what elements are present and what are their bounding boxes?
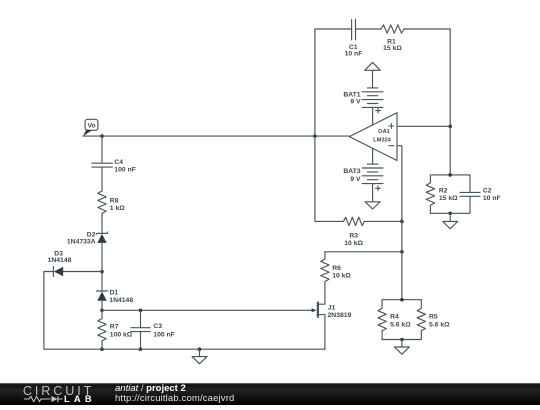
wire D2 to D3 junction — [101, 243, 103, 291]
svg-text:5.6 kΩ: 5.6 kΩ — [390, 322, 411, 329]
capacitor C4 — [92, 163, 112, 186]
label C4 value — [114, 159, 136, 174]
svg-text:C4: C4 — [114, 159, 123, 166]
junction R3 right — [400, 220, 404, 224]
svg-text:15 kΩ: 15 kΩ — [439, 195, 458, 202]
wire R3 to inverting node — [364, 220, 402, 222]
footer title text — [115, 384, 234, 403]
diode D3 — [53, 267, 63, 277]
svg-text:10 nF: 10 nF — [483, 195, 501, 202]
svg-text:R7: R7 — [110, 324, 119, 331]
svg-text:R3: R3 — [349, 233, 358, 240]
wire R2C2 top rail — [430, 174, 470, 176]
junction D3 node — [100, 270, 104, 274]
wire gate node to C3 — [102, 309, 141, 311]
junction R2C2 top — [448, 173, 452, 177]
capacitor C1 — [352, 20, 356, 40]
svg-text:1N4733A: 1N4733A — [67, 238, 96, 245]
junction R7 bottom — [100, 347, 104, 351]
power arrow V+ — [365, 62, 381, 88]
svg-text:Vo: Vo — [88, 122, 96, 129]
svg-text:10 kΩ: 10 kΩ — [344, 240, 363, 247]
svg-text:100 kΩ: 100 kΩ — [110, 331, 133, 338]
svg-text:OA1: OA1 — [378, 129, 390, 135]
wire J1 gate — [140, 309, 308, 311]
wire D3 to left rail — [44, 272, 54, 350]
label R1 value — [383, 39, 402, 52]
svg-text:BAT3: BAT3 — [343, 168, 360, 175]
resistor R4 — [378, 300, 386, 340]
svg-text:9 V: 9 V — [350, 176, 361, 183]
junction R4R5 top — [400, 298, 404, 302]
label R4 value — [390, 314, 411, 329]
label R2 value — [439, 187, 458, 202]
svg-text:100 nF: 100 nF — [114, 166, 136, 173]
wire D1 to gate node — [101, 301, 103, 311]
junction R4R5 bottom — [400, 338, 404, 342]
wire R4R5 bottom rail — [382, 339, 421, 341]
ground R2C2 — [443, 213, 458, 228]
diode D1 — [96, 291, 107, 301]
label BAT1 value — [343, 92, 361, 106]
svg-text:1N4148: 1N4148 — [48, 257, 72, 264]
svg-text:R2: R2 — [439, 187, 448, 194]
junction R6 branch — [400, 250, 404, 254]
wire output rail Vo node — [83, 135, 349, 137]
wire Vo to C4 — [101, 136, 103, 163]
resistor R3 — [344, 217, 365, 225]
battery BAT1 — [362, 88, 383, 125]
ground R4R5 — [394, 340, 409, 355]
node flag Vo — [83, 119, 98, 136]
svg-text:100 nF: 100 nF — [153, 331, 175, 338]
label R3 value — [344, 233, 363, 247]
svg-text:2N3819: 2N3819 — [328, 312, 352, 319]
svg-text:R5: R5 — [429, 314, 438, 321]
label D1 value — [109, 290, 133, 304]
svg-text:1 kΩ: 1 kΩ — [110, 205, 125, 212]
label J1 value — [328, 304, 352, 319]
wire R6 branch horizontal — [325, 251, 402, 253]
junction C3 bottom — [139, 347, 143, 351]
transistor J1 2N3819 — [309, 303, 325, 317]
label R7 value — [110, 324, 133, 339]
svg-text:10 kΩ: 10 kΩ — [332, 273, 351, 280]
resistor R6 — [321, 252, 329, 289]
wire R2C2 bottom rail — [430, 212, 470, 214]
wire op-amp - input — [397, 146, 402, 222]
svg-text:R6: R6 — [332, 265, 341, 272]
diode D2 zener — [96, 232, 107, 243]
label D2 value — [67, 232, 96, 246]
wire R3 left branch — [315, 136, 344, 221]
svg-text:D1: D1 — [110, 290, 119, 297]
label D3 value — [48, 250, 72, 264]
svg-text:15 kΩ: 15 kΩ — [383, 45, 402, 52]
junction R2C2 bottom — [448, 212, 452, 216]
label R5 value — [429, 314, 450, 329]
label BAT3 value — [343, 168, 361, 183]
wire inverting node down — [401, 221, 403, 251]
label C2 value — [483, 187, 501, 202]
label R8 value — [110, 198, 125, 212]
svg-text:J1: J1 — [328, 304, 336, 311]
capacitor C3 — [140, 310, 142, 327]
svg-text:9 V: 9 V — [350, 99, 361, 106]
wire bottom rail — [44, 348, 325, 350]
svg-text:R8: R8 — [110, 198, 119, 205]
resistor R8 — [98, 186, 106, 218]
label R6 value — [332, 265, 351, 280]
resistor R1 — [381, 25, 404, 33]
wire R6 to J1 drain — [318, 289, 325, 304]
footer bar — [0, 383, 540, 405]
op-amp OA1 LM324 — [349, 113, 397, 161]
junction Vo feedback — [313, 134, 317, 138]
wire R8 to D2 — [101, 218, 103, 233]
resistor R2 — [426, 175, 434, 213]
ground BAT3 — [365, 202, 380, 209]
wire down to R4 R5 — [401, 252, 403, 300]
svg-text:10 nF: 10 nF — [345, 50, 363, 57]
label C1 value — [345, 44, 363, 57]
svg-text:R4: R4 — [390, 314, 399, 321]
svg-text:C2: C2 — [483, 187, 492, 194]
capacitor C2 — [469, 175, 471, 193]
wire R1 to right vertical — [404, 29, 450, 175]
wire C1 to R1 — [356, 28, 382, 30]
junction C3 top — [139, 309, 143, 313]
battery BAT3 — [362, 164, 383, 202]
wire op-amp + input — [397, 125, 450, 127]
svg-text:LM324: LM324 — [373, 137, 392, 143]
wire J1 source down — [324, 315, 326, 350]
label C3 value — [153, 323, 175, 338]
junction Vo left — [100, 134, 104, 138]
resistor R5 — [417, 300, 425, 340]
svg-text:C3: C3 — [153, 323, 162, 330]
junction ground rail — [198, 347, 202, 351]
resistor R7 — [98, 310, 106, 349]
junction gate node — [100, 309, 104, 313]
svg-text:1N4148: 1N4148 — [109, 297, 133, 304]
svg-text:LAB: LAB — [64, 393, 96, 404]
ground bottom rail — [192, 349, 207, 364]
wire op-amp V- to BAT3 — [372, 148, 374, 164]
junction noninverting input node — [448, 125, 452, 129]
wire D3 branch — [63, 271, 102, 273]
wire feedback left vertical — [315, 29, 352, 136]
svg-text:5.6 kΩ: 5.6 kΩ — [429, 322, 450, 329]
CircuitLab logo — [0, 383, 110, 405]
wire R4R5 top rail — [382, 299, 421, 301]
